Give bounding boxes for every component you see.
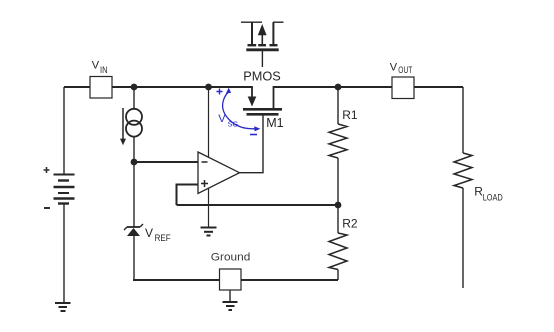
svg-text:V: V (390, 61, 398, 73)
current source I1 (126, 109, 142, 137)
wire zener to bottom rail (133, 235, 135, 280)
svg-text:REF: REF (155, 233, 172, 243)
svg-text:Ground: Ground (211, 251, 251, 263)
wire R1 top lead (337, 87, 339, 124)
label Ground (211, 251, 251, 263)
zener diode VREF (124, 224, 143, 236)
svg-text:R2: R2 (342, 217, 358, 231)
label VREF (145, 226, 171, 243)
label R2 (342, 217, 358, 231)
node B reference node junction (131, 159, 138, 166)
svg-text:V: V (145, 226, 153, 240)
svg-text:LOAD: LOAD (483, 192, 503, 202)
current direction arrow (120, 108, 126, 145)
node R1 tap on rail (335, 84, 342, 91)
ground (op-amp) (201, 228, 217, 236)
op-amp U1 (198, 152, 240, 194)
annotation VSG (217, 88, 261, 135)
label R1 (342, 108, 358, 122)
resistor R2 (329, 233, 347, 270)
svg-text:PMOS: PMOS (243, 70, 280, 84)
wire R2 bottom lead (337, 270, 339, 281)
wire ground box lead (229, 290, 231, 302)
wire bottom ground rail left (133, 279, 220, 281)
wire left column battery lead (63, 87, 65, 175)
node divider midpoint (335, 202, 342, 209)
svg-text:M1: M1 (266, 116, 283, 130)
wire top rail left from battery corner to M1 source (64, 86, 252, 88)
wire RLOAD column top (462, 87, 464, 153)
transistor M1 (243, 86, 282, 114)
port VOUT box (392, 77, 414, 99)
port VIN box (90, 77, 112, 99)
wire reference node to op-amp inverting input (134, 161, 198, 163)
svg-text:V: V (92, 60, 100, 72)
ground (ground box) (223, 302, 238, 310)
PMOS icon (241, 22, 284, 67)
wire R1 bottom lead to divider node (337, 158, 339, 205)
svg-text:SG: SG (228, 120, 239, 129)
svg-text:OUT: OUT (398, 65, 412, 75)
label RLOAD (474, 185, 503, 203)
wire op-amp noninverting input L-shape (177, 185, 199, 206)
port Ground box (220, 269, 242, 290)
ground (battery) (55, 303, 71, 311)
label battery minus (44, 207, 50, 209)
label battery plus (44, 167, 50, 173)
label PMOS (243, 70, 280, 84)
wire current source bottom lead (133, 136, 135, 162)
node A rail/current-source junction (131, 84, 138, 91)
battery B1 (54, 175, 75, 204)
wire R2 top lead (337, 205, 339, 233)
label VSG (218, 113, 238, 129)
node op-amp supply tap on rail (205, 84, 212, 91)
wire reference node down to zener (133, 162, 135, 227)
label VIN (92, 60, 108, 75)
label M1 (266, 116, 283, 130)
resistor R1 (329, 124, 347, 158)
wire current source top lead (133, 87, 135, 109)
svg-text:IN: IN (100, 65, 108, 75)
resistor RLOAD (454, 153, 472, 188)
wire op-amp negative supply to ground (208, 189, 210, 228)
wire op-amp positive supply (208, 87, 210, 157)
svg-text:R1: R1 (342, 108, 358, 122)
svg-text:V: V (218, 113, 226, 125)
wire RLOAD bottom lead (462, 188, 464, 288)
wire bottom ground rail right (241, 279, 338, 281)
label VOUT (390, 61, 413, 75)
wire top rail right from M1 drain to RLOAD corner (274, 86, 464, 88)
wire feedback from divider to op-amp (177, 204, 339, 206)
wire op-amp output to M1 gate (240, 116, 264, 173)
wire battery bottom lead (63, 203, 65, 303)
